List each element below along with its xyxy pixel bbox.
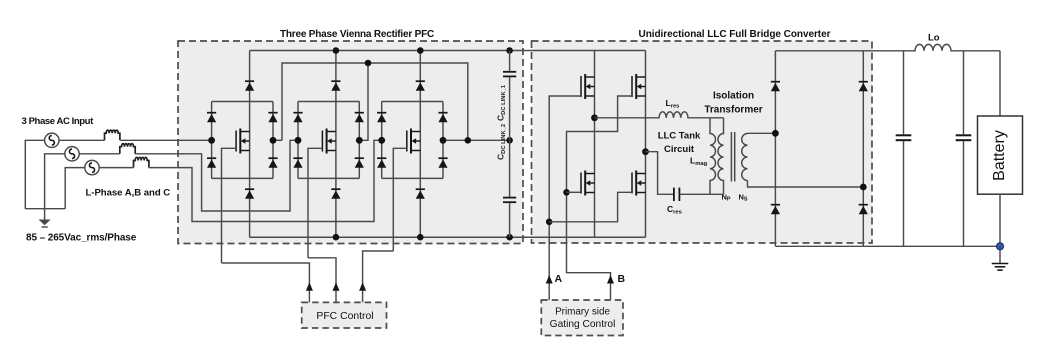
diode leg1 right upper — [268, 113, 277, 123]
node leg3 left mid — [378, 137, 385, 144]
diode leg3 bottom — [416, 189, 425, 199]
wire: PFC gate3 jog — [363, 251, 394, 302]
wire: secondary bottom lead — [748, 181, 864, 188]
wire: leg2 riser — [359, 63, 368, 140]
rectifier left vertical — [774, 51, 776, 247]
wire: PFC gate2 jog — [308, 258, 336, 303]
node leg2 right mid — [356, 137, 363, 144]
wire: source C left lead and rail — [65, 168, 85, 209]
ground symbol — [992, 246, 1009, 270]
capacitor Cout1 — [896, 51, 912, 247]
svg-text:Gating Control: Gating Control — [550, 319, 616, 330]
leg2 bridge frame — [298, 102, 359, 179]
diode leg2 right upper — [355, 113, 364, 123]
wire: neutral line leg3 to caps — [443, 139, 510, 141]
capacitor Cres — [674, 188, 680, 201]
wire: source B left lead and rail — [45, 154, 65, 209]
wire: PFC gate1 jog — [222, 263, 310, 302]
LLC converter dashed box — [532, 41, 873, 243]
battery box — [978, 116, 1023, 194]
mosfet Q2 — [322, 129, 336, 154]
diode rect left bottom — [771, 205, 780, 215]
wire: gate B branch to S3 — [567, 191, 582, 193]
transformer core — [731, 132, 734, 182]
svg-text:Isolation: Isolation — [713, 91, 754, 102]
wire: gate B from S2 — [567, 96, 633, 300]
node leg1 right mid — [270, 137, 277, 144]
leg3 bridge frame — [382, 102, 443, 179]
svg-text:Battery: Battery — [991, 130, 1008, 181]
node neutral at caps — [506, 137, 513, 144]
wire: battery top lead — [999, 51, 1001, 116]
node gate B branch — [563, 189, 570, 196]
AC source VA — [45, 133, 59, 147]
node neutral line junction — [465, 137, 472, 144]
svg-text:85 – 265Vac_rms/Phase: 85 – 265Vac_rms/Phase — [26, 233, 137, 244]
wire: Cres branch — [646, 152, 674, 195]
svg-text:Unidirectional LLC Full Bridge: Unidirectional LLC Full Bridge Converter — [639, 29, 831, 40]
wire: battery bottom lead — [999, 194, 1001, 246]
capacitor C_DC_LINK_2 — [503, 140, 516, 237]
diode leg2 bottom — [331, 189, 340, 199]
inductor LC — [134, 157, 149, 167]
diode leg3 left lower — [377, 158, 386, 168]
diode leg1 bottom — [245, 189, 254, 199]
AC source VC — [85, 160, 99, 174]
wire: phase C into box — [149, 140, 382, 221]
svg-text:Primary side: Primary side — [555, 307, 610, 318]
capacitor C_DC_LINK_1 — [503, 51, 516, 141]
LLC left leg vertical — [594, 51, 596, 238]
svg-text:Three Phase Vienna Rectifier P: Three Phase Vienna Rectifier PFC — [280, 29, 434, 40]
wire: gate A from S1 — [549, 96, 581, 300]
leg1 center vertical — [249, 51, 251, 238]
mosfet S3 bottom-left — [581, 171, 595, 196]
diode leg1 left lower — [207, 158, 216, 168]
diode leg1 top — [245, 81, 254, 91]
mosfet Q3 — [407, 129, 421, 154]
svg-text:Circuit: Circuit — [664, 144, 695, 155]
wire: DC bottom bus — [250, 236, 646, 238]
diode leg1 left upper — [207, 113, 216, 123]
diode leg3 left upper — [377, 113, 386, 123]
diode leg2 left upper — [293, 113, 302, 123]
wire: phase A into box to leg1 — [120, 139, 211, 141]
arrow PFC 2 — [333, 282, 340, 291]
svg-text:Transformer: Transformer — [704, 105, 762, 116]
svg-text:B: B — [618, 273, 626, 285]
diode leg2 top — [331, 81, 340, 91]
wire: DC top bus — [250, 50, 646, 52]
arrow B — [607, 275, 614, 284]
wire: source A left lead and rail — [25, 140, 44, 208]
node bottom bus cap — [506, 234, 513, 241]
capacitor Cout2 — [956, 51, 972, 247]
wire: phase C from source to inductor — [99, 167, 133, 169]
diode leg2 left lower — [293, 158, 302, 168]
mosfet Q1 — [236, 129, 250, 154]
wire: output bottom bar — [775, 245, 1000, 247]
wire: tank top with Lres — [595, 112, 724, 118]
node leg1 left mid — [208, 137, 215, 144]
inductor LA — [105, 130, 120, 140]
arrow A — [546, 275, 553, 284]
wire: phase B into box — [135, 140, 298, 211]
wire: gate A branch to S4 — [549, 192, 632, 222]
wire: output top bar with Lo — [775, 44, 1000, 50]
inductor Lmag — [710, 118, 716, 195]
leg2 center vertical — [335, 51, 337, 238]
arrow PFC 3 — [359, 282, 366, 291]
mosfet S4 bottom-right — [632, 171, 646, 196]
leg3 center vertical — [419, 51, 421, 238]
diode leg1 right lower — [268, 158, 277, 168]
svg-text:Lo: Lo — [928, 33, 940, 44]
wire: leg1 riser jog — [273, 139, 282, 141]
diode rect left top — [771, 82, 780, 92]
node leg3 right mid — [440, 137, 447, 144]
svg-text:LLC Tank: LLC Tank — [658, 131, 701, 142]
wire: Q1 gate lead — [222, 148, 237, 263]
LLC right leg vertical — [645, 51, 647, 238]
Vienna rectifier PFC dashed box — [178, 41, 523, 244]
wire: Q3 gate lead — [393, 148, 407, 251]
node bottom bus leg3 — [417, 234, 424, 241]
wire: bottom return line — [25, 208, 65, 210]
Primary side Gating Control box — [541, 300, 623, 336]
node leg2 left mid — [295, 137, 302, 144]
svg-text:L-Phase A,B and C: L-Phase A,B and C — [86, 188, 171, 199]
inductor LB — [120, 144, 135, 154]
diode rect right top — [859, 82, 868, 92]
node bottom bus leg2 — [333, 234, 340, 241]
svg-text:PFC Control: PFC Control — [316, 311, 373, 322]
node top bus leg2 — [333, 47, 340, 54]
diode leg3 right lower — [438, 158, 447, 168]
svg-text:A: A — [555, 273, 563, 285]
node LLC right leg mid — [642, 148, 649, 155]
transformer primary winding — [718, 118, 724, 195]
mosfet S1 top-left — [581, 74, 595, 99]
diode leg2 right lower — [355, 158, 364, 168]
node rect left mid — [772, 130, 779, 137]
PFC Control box — [302, 302, 387, 328]
wire: phase A from source to inductor — [59, 139, 105, 141]
diode leg3 right upper — [438, 113, 447, 123]
node output ground (blue) — [996, 243, 1003, 250]
node rect right mid — [860, 184, 867, 191]
AC source VB — [65, 147, 79, 161]
wire: secondary top lead — [748, 132, 776, 134]
leg1 bridge frame — [212, 102, 273, 179]
svg-text:3 Phase AC Input: 3 Phase AC Input — [22, 116, 95, 127]
node top bus leg3 — [417, 47, 424, 54]
diode rect right bottom — [859, 205, 868, 215]
node top bus cap — [506, 47, 513, 54]
arrow PFC 1 — [306, 282, 313, 291]
wire: neutral second line — [282, 63, 468, 140]
node LLC left leg mid — [591, 114, 598, 121]
wire: phase B from source to inductor — [79, 153, 120, 155]
transformer secondary winding — [742, 134, 748, 181]
wire: Cres to primary bottom — [680, 193, 724, 195]
rectifier right vertical — [862, 51, 864, 247]
ground arrow — [39, 209, 51, 227]
node gate A branch — [546, 219, 553, 226]
node neutral line second riser — [365, 60, 372, 67]
diode leg3 top — [416, 81, 425, 91]
mosfet S2 top-right — [632, 74, 646, 99]
wire: Q2 gate lead — [308, 148, 322, 257]
